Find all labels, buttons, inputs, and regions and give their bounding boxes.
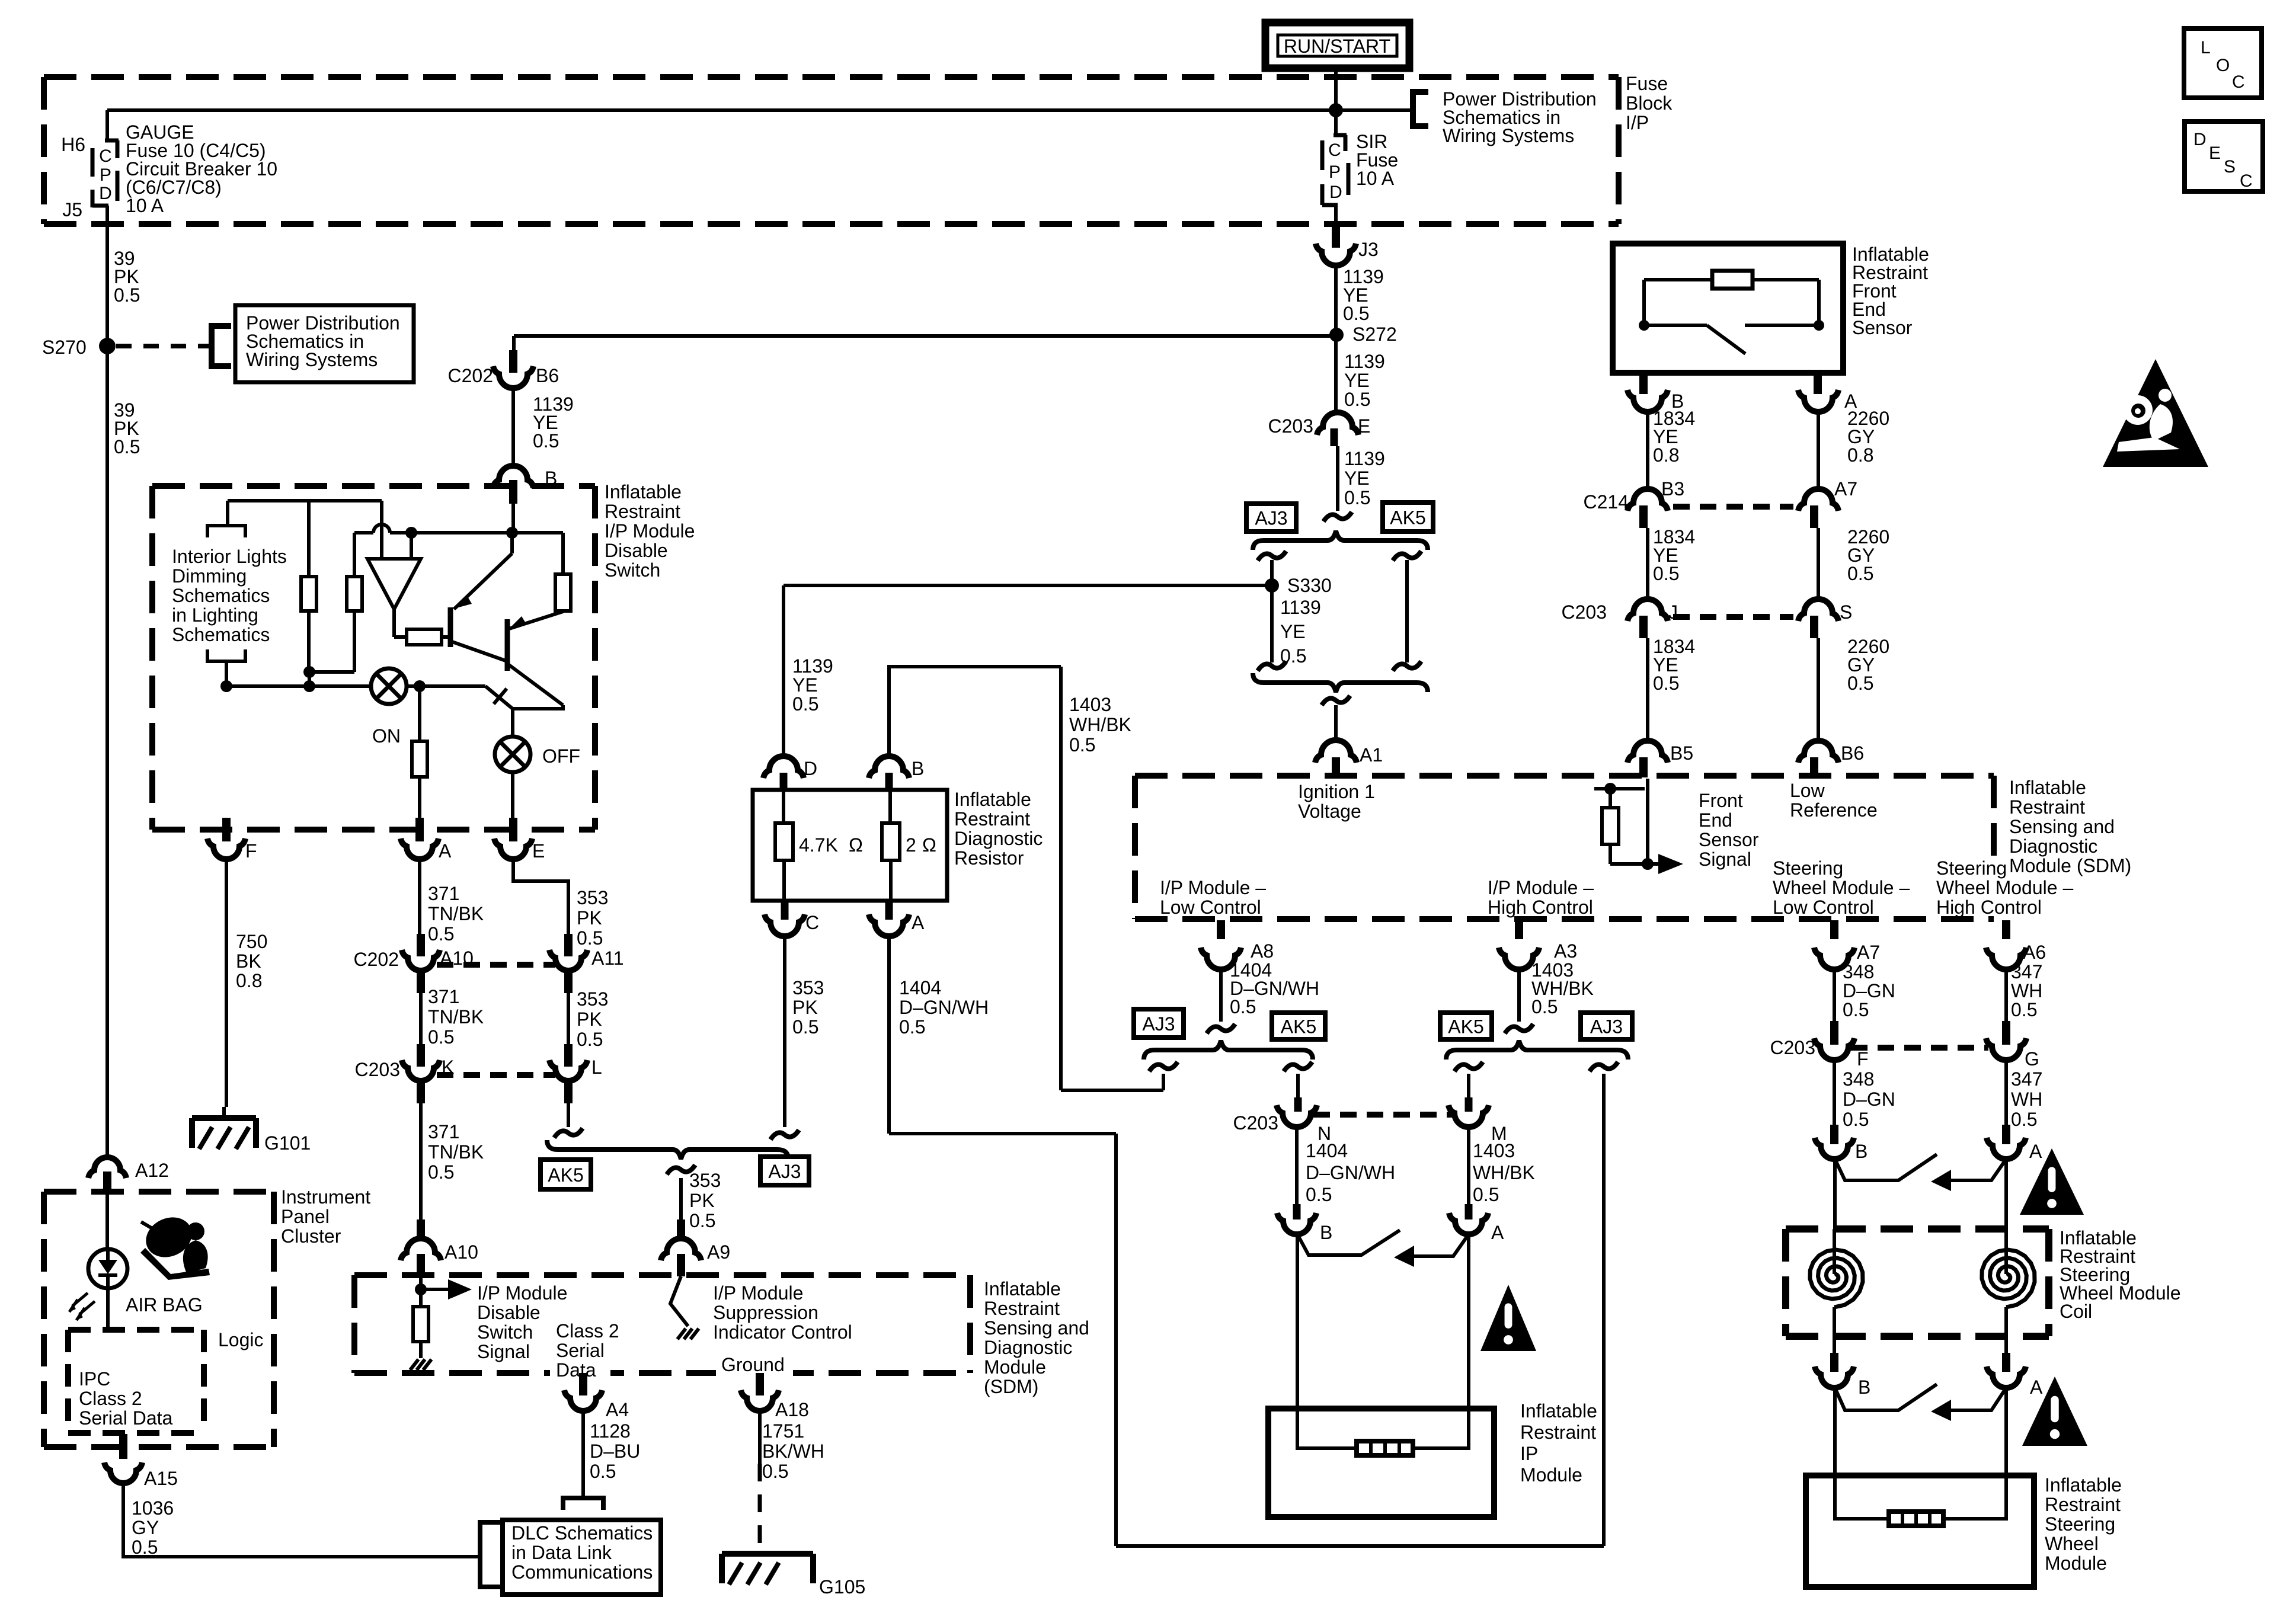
svg-text:353: 353 bbox=[689, 1170, 721, 1191]
svg-text:1139: 1139 bbox=[1280, 597, 1321, 618]
svg-text:Cluster: Cluster bbox=[281, 1225, 341, 1247]
svg-text:BK/WH: BK/WH bbox=[762, 1441, 824, 1462]
svg-text:Switch: Switch bbox=[605, 559, 660, 581]
svg-text:4.7K: 4.7K bbox=[799, 834, 838, 856]
svg-text:A8: A8 bbox=[1251, 940, 1274, 962]
svg-text:A: A bbox=[912, 912, 925, 933]
svg-text:Inflatable: Inflatable bbox=[2045, 1474, 2122, 1496]
svg-text:Resistor: Resistor bbox=[954, 847, 1024, 869]
svg-text:High Control: High Control bbox=[1488, 897, 1593, 918]
svg-text:C203: C203 bbox=[1770, 1037, 1816, 1058]
svg-text:D: D bbox=[1329, 183, 1342, 202]
svg-text:YE: YE bbox=[1280, 621, 1306, 642]
svg-text:1128: 1128 bbox=[590, 1420, 631, 1442]
svg-text:Signal: Signal bbox=[1699, 849, 1751, 870]
svg-text:750: 750 bbox=[236, 931, 267, 952]
svg-text:GY: GY bbox=[132, 1517, 159, 1538]
svg-text:1403: 1403 bbox=[1473, 1140, 1515, 1161]
svg-text:0.5: 0.5 bbox=[1653, 673, 1679, 694]
svg-text:Front: Front bbox=[1699, 790, 1743, 811]
svg-text:G105: G105 bbox=[819, 1576, 865, 1598]
svg-text:Low Control: Low Control bbox=[1773, 897, 1874, 918]
svg-text:A: A bbox=[439, 840, 452, 862]
svg-text:A4: A4 bbox=[606, 1399, 629, 1420]
svg-text:AJ3: AJ3 bbox=[1590, 1016, 1623, 1038]
svg-text:Restraint: Restraint bbox=[2009, 796, 2085, 818]
svg-text:YE: YE bbox=[1344, 370, 1370, 391]
svg-text:J5: J5 bbox=[62, 199, 82, 220]
svg-text:End: End bbox=[1699, 809, 1732, 831]
svg-text:1404: 1404 bbox=[1306, 1140, 1348, 1161]
svg-text:H6: H6 bbox=[61, 134, 85, 155]
svg-text:Wiring Systems: Wiring Systems bbox=[246, 349, 378, 370]
svg-text:AJ3: AJ3 bbox=[1255, 508, 1287, 529]
svg-text:PK: PK bbox=[577, 907, 602, 929]
svg-text:0.5: 0.5 bbox=[792, 1016, 818, 1038]
svg-text:A3: A3 bbox=[1554, 940, 1577, 962]
svg-text:Class 2: Class 2 bbox=[556, 1320, 619, 1342]
svg-text:(SDM): (SDM) bbox=[984, 1376, 1038, 1397]
svg-text:0.5: 0.5 bbox=[428, 923, 454, 945]
svg-text:Coil: Coil bbox=[2060, 1301, 2092, 1322]
svg-text:0.5: 0.5 bbox=[1344, 487, 1370, 508]
svg-text:A: A bbox=[1491, 1222, 1504, 1243]
svg-text:Suppression: Suppression bbox=[713, 1302, 818, 1323]
svg-text:0.5: 0.5 bbox=[762, 1461, 788, 1482]
svg-text:BK: BK bbox=[236, 950, 261, 972]
svg-text:0.5: 0.5 bbox=[1069, 734, 1095, 756]
svg-text:0.5: 0.5 bbox=[428, 1026, 454, 1048]
svg-text:0.5: 0.5 bbox=[1847, 673, 1873, 694]
svg-text:Inflatable: Inflatable bbox=[605, 481, 682, 502]
svg-text:0.5: 0.5 bbox=[533, 430, 559, 452]
svg-text:0.5: 0.5 bbox=[590, 1461, 616, 1482]
svg-text:L: L bbox=[2201, 38, 2211, 57]
svg-text:A9: A9 bbox=[707, 1241, 730, 1263]
svg-text:A7: A7 bbox=[1834, 478, 1857, 500]
svg-text:0.8: 0.8 bbox=[1847, 444, 1873, 466]
svg-text:I/P: I/P bbox=[1626, 112, 1649, 133]
svg-text:Sensing and: Sensing and bbox=[984, 1317, 1089, 1339]
svg-text:Restraint: Restraint bbox=[2045, 1494, 2121, 1515]
svg-text:Data: Data bbox=[556, 1359, 596, 1381]
svg-text:in Data Link: in Data Link bbox=[511, 1542, 612, 1563]
svg-text:1139: 1139 bbox=[1344, 448, 1385, 469]
svg-text:Diagnostic: Diagnostic bbox=[984, 1337, 1072, 1358]
svg-text:10 A: 10 A bbox=[1356, 168, 1395, 189]
svg-text:0.5: 0.5 bbox=[114, 436, 140, 457]
svg-text:PK: PK bbox=[689, 1190, 715, 1211]
svg-text:S272: S272 bbox=[1352, 324, 1397, 345]
svg-text:371: 371 bbox=[428, 986, 459, 1007]
svg-text:Inflatable: Inflatable bbox=[2009, 777, 2086, 798]
svg-text:S330: S330 bbox=[1287, 575, 1332, 596]
svg-text:Restraint: Restraint bbox=[984, 1298, 1060, 1319]
svg-text:AJ3: AJ3 bbox=[1142, 1013, 1175, 1035]
svg-text:0.5: 0.5 bbox=[1473, 1184, 1499, 1205]
svg-text:I/P Module: I/P Module bbox=[477, 1282, 567, 1304]
svg-text:D: D bbox=[99, 184, 112, 203]
svg-text:YE: YE bbox=[1344, 468, 1370, 489]
svg-text:10 A: 10 A bbox=[126, 195, 164, 216]
svg-text:B: B bbox=[912, 758, 924, 779]
svg-text:Restraint: Restraint bbox=[1520, 1422, 1596, 1443]
svg-text:A10: A10 bbox=[445, 1241, 478, 1263]
svg-text:E: E bbox=[1358, 415, 1370, 437]
svg-text:D–GN/WH: D–GN/WH bbox=[899, 997, 989, 1018]
svg-text:Inflatable: Inflatable bbox=[1520, 1400, 1597, 1422]
svg-text:371: 371 bbox=[428, 883, 459, 904]
svg-text:Steering: Steering bbox=[1773, 857, 1843, 879]
svg-text:I/P Module: I/P Module bbox=[605, 520, 695, 542]
svg-text:Communications: Communications bbox=[511, 1561, 653, 1583]
svg-text:Ignition 1: Ignition 1 bbox=[1298, 781, 1375, 802]
svg-text:0.5: 0.5 bbox=[577, 1029, 603, 1050]
svg-text:1139: 1139 bbox=[792, 655, 833, 677]
svg-text:O: O bbox=[2216, 56, 2230, 75]
svg-text:Low: Low bbox=[1790, 780, 1825, 801]
svg-text:0.5: 0.5 bbox=[1230, 996, 1256, 1017]
svg-text:Sensing and: Sensing and bbox=[2009, 816, 2115, 837]
svg-text:C: C bbox=[99, 146, 112, 166]
svg-text:1403: 1403 bbox=[1069, 694, 1111, 715]
svg-text:WH: WH bbox=[2011, 980, 2042, 1001]
svg-text:0.5: 0.5 bbox=[1306, 1184, 1332, 1205]
svg-text:Inflatable: Inflatable bbox=[984, 1278, 1061, 1299]
svg-text:353: 353 bbox=[577, 988, 608, 1010]
svg-text:Sensor: Sensor bbox=[1699, 829, 1759, 850]
svg-text:A11: A11 bbox=[591, 948, 624, 969]
svg-text:TN/BK: TN/BK bbox=[428, 1141, 484, 1163]
svg-text:D–GN: D–GN bbox=[1843, 1089, 1895, 1110]
svg-text:C: C bbox=[2240, 171, 2253, 191]
svg-text:C: C bbox=[805, 912, 819, 933]
svg-text:IPC: IPC bbox=[79, 1368, 110, 1390]
svg-text:Restraint: Restraint bbox=[954, 808, 1030, 830]
svg-text:Interior Lights: Interior Lights bbox=[172, 546, 287, 567]
svg-text:0.5: 0.5 bbox=[132, 1537, 158, 1558]
svg-text:RUN/START: RUN/START bbox=[1284, 36, 1390, 57]
svg-text:Inflatable: Inflatable bbox=[954, 789, 1031, 810]
svg-text:Steering: Steering bbox=[1936, 857, 2007, 879]
svg-text:C203: C203 bbox=[1268, 415, 1314, 437]
svg-text:Diagnostic: Diagnostic bbox=[954, 828, 1043, 849]
svg-text:Sensor: Sensor bbox=[1852, 317, 1913, 338]
svg-text:PK: PK bbox=[792, 997, 818, 1018]
svg-text:WH: WH bbox=[2011, 1089, 2042, 1110]
svg-text:0.5: 0.5 bbox=[899, 1016, 925, 1038]
svg-text:D–BU: D–BU bbox=[590, 1441, 640, 1462]
svg-text:Instrument: Instrument bbox=[281, 1186, 370, 1208]
svg-text:I/P Module: I/P Module bbox=[713, 1282, 803, 1304]
svg-text:0.5: 0.5 bbox=[428, 1161, 454, 1183]
svg-text:D: D bbox=[2193, 130, 2207, 149]
svg-text:0.5: 0.5 bbox=[1344, 389, 1370, 410]
svg-text:347: 347 bbox=[2011, 1068, 2042, 1090]
svg-text:L: L bbox=[591, 1057, 602, 1078]
svg-text:High Control: High Control bbox=[1936, 897, 2042, 918]
svg-text:0.5: 0.5 bbox=[114, 284, 140, 306]
svg-text:Wiring Systems: Wiring Systems bbox=[1443, 125, 1574, 146]
svg-text:Low Control: Low Control bbox=[1160, 897, 1261, 918]
svg-text:Module: Module bbox=[984, 1356, 1046, 1378]
svg-text:Signal: Signal bbox=[477, 1341, 530, 1362]
svg-text:B: B bbox=[1858, 1377, 1870, 1398]
svg-text:0.5: 0.5 bbox=[1653, 563, 1679, 584]
svg-text:WH/BK: WH/BK bbox=[1473, 1162, 1535, 1183]
svg-text:Indicator Control: Indicator Control bbox=[713, 1321, 852, 1343]
svg-text:0.5: 0.5 bbox=[1343, 303, 1369, 324]
svg-text:Serial: Serial bbox=[556, 1340, 605, 1361]
svg-text:Class 2: Class 2 bbox=[79, 1388, 142, 1409]
svg-text:AIR BAG: AIR BAG bbox=[126, 1294, 203, 1315]
svg-text:A: A bbox=[2030, 1377, 2043, 1398]
svg-text:371: 371 bbox=[428, 1121, 459, 1142]
svg-text:C202: C202 bbox=[448, 365, 494, 386]
svg-text:A: A bbox=[2029, 1141, 2042, 1162]
svg-text:Dimming: Dimming bbox=[172, 565, 247, 587]
svg-text:A7: A7 bbox=[1857, 942, 1880, 963]
svg-text:Ground: Ground bbox=[721, 1354, 785, 1375]
svg-text:D–GN/WH: D–GN/WH bbox=[1306, 1162, 1395, 1183]
svg-text:WH/BK: WH/BK bbox=[1069, 714, 1131, 735]
svg-text:AK5: AK5 bbox=[548, 1164, 583, 1186]
svg-text:1139: 1139 bbox=[1344, 351, 1385, 372]
svg-text:in Lighting: in Lighting bbox=[172, 604, 258, 626]
svg-text:G: G bbox=[2025, 1048, 2039, 1070]
svg-text:Schematics: Schematics bbox=[172, 585, 270, 606]
svg-text:A1: A1 bbox=[1360, 744, 1383, 766]
svg-text:1404: 1404 bbox=[899, 977, 941, 998]
svg-text:P: P bbox=[1329, 162, 1341, 182]
svg-text:J3: J3 bbox=[1358, 239, 1379, 260]
svg-text:B6: B6 bbox=[1841, 742, 1864, 764]
svg-text:Voltage: Voltage bbox=[1298, 801, 1361, 822]
svg-text:PK: PK bbox=[577, 1009, 602, 1030]
svg-text:C203: C203 bbox=[1233, 1112, 1279, 1134]
svg-text:0.5: 0.5 bbox=[1280, 645, 1306, 667]
svg-text:0.8: 0.8 bbox=[236, 970, 262, 991]
svg-text:Steering: Steering bbox=[2045, 1513, 2115, 1535]
svg-text:Ω: Ω bbox=[849, 834, 863, 856]
svg-text:Ω: Ω bbox=[922, 834, 936, 856]
svg-text:B3: B3 bbox=[1661, 478, 1684, 500]
svg-text:B6: B6 bbox=[536, 365, 559, 386]
svg-text:0.5: 0.5 bbox=[689, 1210, 715, 1231]
svg-text:Disable: Disable bbox=[477, 1302, 541, 1323]
svg-text:C202: C202 bbox=[354, 949, 399, 970]
svg-text:TN/BK: TN/BK bbox=[428, 903, 484, 924]
svg-text:Wheel Module –: Wheel Module – bbox=[1936, 877, 2073, 898]
svg-text:P: P bbox=[100, 165, 111, 185]
svg-text:F: F bbox=[245, 840, 257, 862]
svg-text:OFF: OFF bbox=[542, 745, 580, 767]
svg-text:348: 348 bbox=[1843, 961, 1874, 982]
svg-text:E: E bbox=[2209, 143, 2221, 163]
svg-text:C: C bbox=[2232, 72, 2245, 92]
svg-text:D: D bbox=[804, 758, 817, 779]
svg-text:YE: YE bbox=[792, 674, 818, 696]
svg-text:1751: 1751 bbox=[762, 1420, 804, 1442]
svg-text:C: C bbox=[1328, 140, 1341, 160]
svg-text:C214: C214 bbox=[1584, 491, 1629, 513]
svg-text:0.5: 0.5 bbox=[2011, 1109, 2037, 1130]
svg-text:B: B bbox=[1855, 1141, 1868, 1162]
svg-text:F: F bbox=[1857, 1048, 1869, 1070]
svg-text:AJ3: AJ3 bbox=[768, 1161, 801, 1182]
svg-text:0.5: 0.5 bbox=[577, 927, 603, 949]
svg-text:Module (SDM): Module (SDM) bbox=[2009, 855, 2131, 876]
svg-text:Schematics: Schematics bbox=[172, 624, 270, 645]
svg-text:Module: Module bbox=[1520, 1464, 1582, 1486]
svg-text:0.5: 0.5 bbox=[1843, 999, 1869, 1020]
svg-text:Wheel Module –: Wheel Module – bbox=[1773, 877, 1910, 898]
svg-text:0.5: 0.5 bbox=[1843, 1109, 1869, 1130]
svg-text:A15: A15 bbox=[144, 1468, 178, 1489]
svg-text:Module: Module bbox=[2045, 1553, 2107, 1574]
svg-text:DLC Schematics: DLC Schematics bbox=[511, 1522, 653, 1544]
svg-text:B: B bbox=[1320, 1222, 1332, 1243]
svg-text:Logic: Logic bbox=[218, 1329, 264, 1350]
svg-text:353: 353 bbox=[577, 887, 608, 908]
svg-text:AK5: AK5 bbox=[1281, 1016, 1316, 1038]
svg-text:TN/BK: TN/BK bbox=[428, 1006, 484, 1028]
svg-text:S270: S270 bbox=[42, 337, 87, 358]
svg-text:Disable: Disable bbox=[605, 540, 668, 561]
svg-text:B5: B5 bbox=[1670, 742, 1693, 764]
svg-text:S: S bbox=[1840, 601, 1852, 623]
svg-text:Panel: Panel bbox=[281, 1206, 330, 1227]
svg-text:G101: G101 bbox=[264, 1132, 311, 1154]
svg-text:A12: A12 bbox=[135, 1160, 169, 1181]
svg-text:Serial Data: Serial Data bbox=[79, 1407, 173, 1429]
svg-text:ON: ON bbox=[372, 725, 401, 747]
svg-text:353: 353 bbox=[792, 977, 824, 998]
svg-text:Switch: Switch bbox=[477, 1321, 533, 1343]
svg-text:Block: Block bbox=[1626, 92, 1673, 114]
svg-text:S: S bbox=[2224, 157, 2236, 177]
svg-text:347: 347 bbox=[2011, 961, 2042, 982]
svg-text:0.8: 0.8 bbox=[1653, 444, 1679, 466]
svg-text:Reference: Reference bbox=[1790, 799, 1878, 821]
svg-text:Restraint: Restraint bbox=[605, 501, 680, 522]
svg-text:0.5: 0.5 bbox=[1847, 563, 1873, 584]
svg-text:I/P Module –: I/P Module – bbox=[1488, 877, 1594, 898]
svg-text:348: 348 bbox=[1843, 1068, 1874, 1090]
svg-text:C203: C203 bbox=[355, 1059, 401, 1080]
svg-text:1036: 1036 bbox=[132, 1497, 174, 1519]
svg-text:I/P Module –: I/P Module – bbox=[1160, 877, 1266, 898]
svg-text:Fuse: Fuse bbox=[1626, 73, 1668, 94]
svg-text:IP: IP bbox=[1520, 1443, 1538, 1464]
svg-text:A6: A6 bbox=[2023, 942, 2046, 963]
svg-text:D–GN: D–GN bbox=[1843, 980, 1895, 1001]
svg-text:0.5: 0.5 bbox=[792, 693, 818, 715]
svg-text:AK5: AK5 bbox=[1448, 1016, 1483, 1038]
svg-text:Wheel: Wheel bbox=[2045, 1533, 2099, 1554]
svg-text:A18: A18 bbox=[775, 1399, 809, 1420]
svg-text:E: E bbox=[532, 840, 545, 862]
svg-text:C203: C203 bbox=[1562, 601, 1607, 623]
svg-text:2: 2 bbox=[906, 834, 916, 856]
svg-text:AK5: AK5 bbox=[1390, 507, 1425, 529]
svg-text:0.5: 0.5 bbox=[2011, 999, 2037, 1020]
svg-text:Diagnostic: Diagnostic bbox=[2009, 836, 2097, 857]
svg-text:0.5: 0.5 bbox=[1531, 996, 1558, 1017]
